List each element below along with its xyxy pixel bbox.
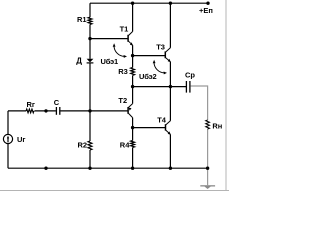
svg-text:Uбэ1: Uбэ1 bbox=[101, 57, 118, 66]
svg-text:T1: T1 bbox=[120, 24, 129, 33]
svg-text:+Eп: +Eп bbox=[199, 6, 213, 15]
svg-text:T4: T4 bbox=[157, 116, 167, 125]
svg-text:T3: T3 bbox=[156, 43, 165, 52]
svg-text:R1: R1 bbox=[77, 15, 87, 24]
svg-text:R4: R4 bbox=[120, 140, 130, 149]
svg-text:Uг: Uг bbox=[17, 135, 26, 144]
svg-text:R2: R2 bbox=[78, 141, 88, 150]
svg-text:Uбэ2: Uбэ2 bbox=[139, 72, 156, 81]
svg-text:Rн: Rн bbox=[212, 122, 222, 131]
svg-text:Cp: Cp bbox=[185, 71, 195, 80]
svg-text:C: C bbox=[54, 98, 60, 107]
svg-text:T2: T2 bbox=[118, 96, 127, 105]
svg-text:Rг: Rг bbox=[27, 100, 36, 109]
svg-text:Д: Д bbox=[76, 56, 82, 65]
svg-text:R3: R3 bbox=[118, 67, 128, 76]
